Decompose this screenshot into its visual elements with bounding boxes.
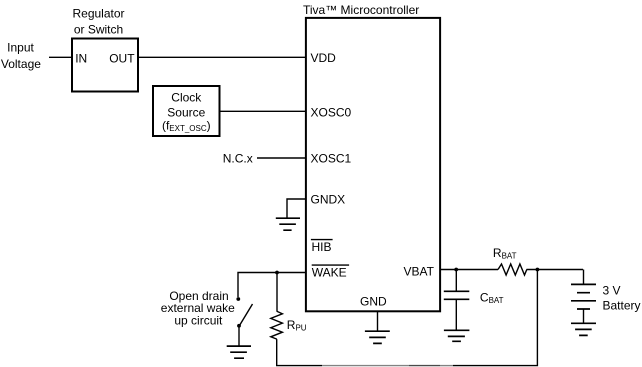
svg-text:Source: Source xyxy=(167,105,205,119)
svg-text:WAKE: WAKE xyxy=(312,266,347,280)
svg-text:Battery: Battery xyxy=(603,298,641,312)
svg-text:or Switch: or Switch xyxy=(74,23,123,37)
svg-text:HIB: HIB xyxy=(312,240,332,254)
svg-text:VDD: VDD xyxy=(311,51,337,65)
svg-text:Voltage: Voltage xyxy=(1,57,41,71)
svg-text:OUT: OUT xyxy=(109,52,135,66)
svg-text:XOSC1: XOSC1 xyxy=(311,152,352,166)
svg-text:up circuit: up circuit xyxy=(174,313,223,327)
svg-text:GNDX: GNDX xyxy=(311,192,346,206)
svg-text:GND: GND xyxy=(360,295,387,309)
svg-text:N.C.x: N.C.x xyxy=(223,152,253,166)
svg-text:3 V: 3 V xyxy=(603,283,621,297)
svg-text:Clock: Clock xyxy=(171,90,202,104)
svg-text:VBAT: VBAT xyxy=(404,264,435,278)
svg-text:IN: IN xyxy=(75,52,87,66)
svg-text:Tiva™ Microcontroller: Tiva™ Microcontroller xyxy=(303,3,419,17)
svg-text:XOSC0: XOSC0 xyxy=(311,106,352,120)
svg-text:Regulator: Regulator xyxy=(72,7,124,21)
svg-text:Input: Input xyxy=(7,41,34,55)
